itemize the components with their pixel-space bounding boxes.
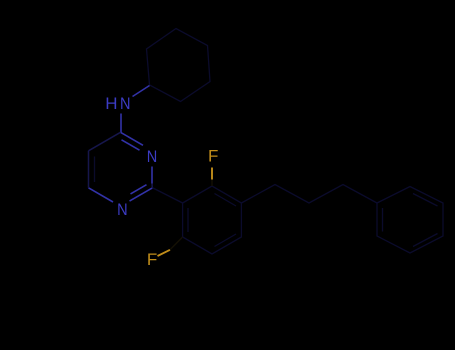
pyrimidine ring bright C-N bonds — [89, 132, 153, 202]
wire C5=C6 inner (ghost) — [94, 157, 96, 183]
svg-text:N: N — [120, 94, 131, 113]
wire C-F top dark half — [211, 180, 213, 187]
inner T-UR — [215, 194, 237, 207]
inner UL-LL — [382, 208, 384, 232]
svg-text:F: F — [147, 250, 157, 269]
phenyl ring 2 (ghost) — [377, 187, 443, 254]
pyrimidine C-C bonds (dim) — [89, 132, 121, 188]
wire C2=N1 main — [130, 188, 153, 201]
wire C-F top gold half — [211, 168, 213, 180]
inner LR-B — [413, 234, 438, 247]
wire C5-C6 — [88, 151, 90, 188]
wire N1-C6 — [89, 188, 114, 202]
wire N-C4 — [120, 114, 122, 133]
wire N-C1' cyclohexyl — [133, 86, 150, 97]
wire N3-C2 — [151, 167, 153, 184]
svg-text:N: N — [117, 200, 128, 219]
wire C-F bottom dark half — [170, 237, 183, 250]
wire N3-C2 lower half (dim) — [151, 184, 153, 188]
wire C4=N3 main — [121, 132, 144, 145]
wire C4-C5 — [89, 132, 121, 151]
cyclohexyl ring C1'-C6' (ghost) — [147, 29, 211, 102]
svg-text:F: F — [208, 147, 218, 166]
butylene chain (ghost) — [241, 185, 377, 204]
wire C4=N3 inner — [122, 140, 140, 150]
wire C-F bottom gold half — [158, 250, 171, 256]
inner LR-B — [215, 234, 237, 247]
wire C2=N1 inner — [131, 185, 147, 194]
inner T-UR — [413, 194, 438, 207]
difluorophenyl ring (ghost) — [183, 186, 242, 254]
svg-text:N: N — [147, 147, 158, 166]
wire C2-ipso aryl (ghost) — [153, 188, 183, 203]
svg-text:H: H — [105, 94, 117, 113]
inner UL-LL — [187, 208, 189, 232]
